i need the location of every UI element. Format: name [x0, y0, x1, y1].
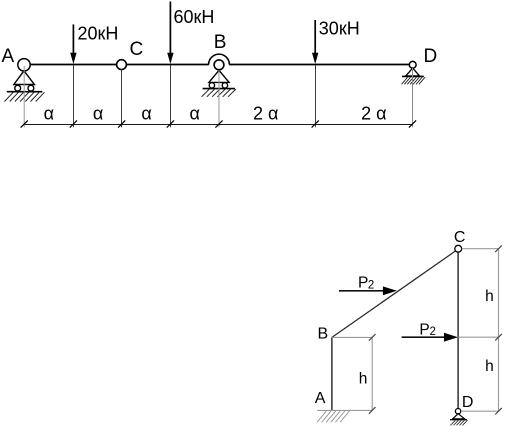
tick at B: [215, 120, 222, 127]
hinge circle D (frame): [455, 409, 460, 414]
force arrow P2 upper: [339, 286, 397, 295]
right dimension: extension at C level: [462, 248, 499, 250]
triangle D: [406, 68, 420, 76]
arc over hinge B: [209, 54, 230, 64]
tick at D: [409, 120, 416, 127]
tick at C: [118, 120, 125, 127]
force arrow 60кН: [167, 2, 173, 65]
force arrow P2 lower: [402, 333, 458, 342]
tick left dim bottom: [369, 407, 376, 414]
tick at 20кН: [70, 120, 77, 127]
svg-text:2 α: 2 α: [253, 104, 278, 124]
wire beam segment A-C: [30, 64, 117, 66]
triangle A: [14, 71, 35, 85]
hatching D frame: [451, 420, 468, 425]
svg-text:D: D: [424, 46, 438, 67]
hinge circle C (frame): [455, 245, 462, 252]
ground line D: [402, 75, 424, 77]
member column C-D: [457, 252, 459, 409]
extension line at 30кН: [315, 65, 317, 127]
tick at 60кН: [167, 120, 174, 127]
svg-text:2 α: 2 α: [361, 104, 386, 124]
pin circle B: [214, 60, 224, 70]
svg-text:h: h: [485, 358, 494, 375]
tick right dim mid: [495, 334, 502, 341]
right dimension: extension at D level: [461, 410, 499, 412]
roller right B: [222, 83, 227, 88]
ground line A: [7, 91, 43, 93]
svg-text:h: h: [485, 288, 494, 305]
hatching A: [5, 92, 45, 101]
force arrow 20кН: [70, 24, 76, 64]
extension line at A: [23, 66, 25, 127]
pin circle A: [18, 59, 30, 71]
tick at 30кН: [312, 120, 319, 127]
support D (frame pin support): [450, 414, 468, 426]
roller right A: [28, 85, 34, 91]
svg-text:P: P: [358, 275, 368, 292]
svg-text:C: C: [454, 229, 466, 246]
svg-text:α: α: [93, 104, 103, 124]
support A (roller support): [5, 59, 45, 102]
svg-text:C: C: [130, 39, 144, 60]
support D (pin support): [402, 61, 426, 84]
svg-text:α: α: [141, 104, 151, 124]
roller left B: [209, 83, 214, 88]
svg-text:D: D: [462, 394, 474, 411]
svg-text:α: α: [44, 104, 54, 124]
ground at A (frame fixed base): [317, 410, 372, 422]
tick right dim bottom: [495, 408, 502, 415]
svg-text:h: h: [359, 370, 368, 387]
svg-text:B: B: [318, 326, 329, 343]
svg-text:B: B: [214, 32, 227, 53]
svg-text:P: P: [419, 321, 429, 338]
wire beam segment B-D: [229, 64, 409, 66]
left h dimension line vertical: [371, 337, 373, 410]
wire beam segment C-B: [126, 64, 208, 66]
hinge C (circle): [117, 60, 127, 70]
svg-text:60кН: 60кН: [174, 7, 215, 27]
hatching B: [202, 89, 236, 97]
tick right dim top: [495, 245, 502, 252]
force arrow 30кН: [312, 20, 318, 64]
svg-text:2: 2: [430, 326, 436, 338]
ground line D frame: [450, 419, 467, 421]
right dimension line vertical: [498, 249, 500, 412]
triangle B: [209, 70, 229, 82]
dimension line (top beam): [24, 124, 412, 126]
hatching D: [402, 77, 426, 84]
roller left A: [15, 85, 21, 91]
tick left dim top: [369, 334, 376, 341]
member column A-B: [331, 337, 333, 410]
pin circle D: [409, 61, 416, 68]
left h dimension: extension at B level: [332, 336, 372, 338]
extension line at D: [412, 68, 414, 127]
tick at A: [21, 120, 28, 127]
extension line at B: [218, 70, 220, 127]
svg-text:30кН: 30кН: [319, 18, 360, 38]
hatching A frame: [317, 411, 350, 422]
triangle D frame: [453, 414, 465, 419]
extension line at C: [121, 70, 123, 128]
right dimension: extension at mid level: [458, 336, 498, 338]
svg-text:A: A: [2, 46, 15, 67]
extension line at 60кН: [170, 65, 172, 127]
svg-text:A: A: [315, 390, 326, 407]
svg-text:α: α: [189, 104, 199, 124]
ground line B: [203, 88, 235, 90]
support B (pin on rollers with arc over hinge): [202, 54, 236, 97]
svg-text:2: 2: [368, 280, 374, 292]
svg-text:20кН: 20кН: [78, 24, 119, 44]
member incline B-C: [332, 251, 456, 338]
extension line at 20кН: [73, 65, 75, 127]
